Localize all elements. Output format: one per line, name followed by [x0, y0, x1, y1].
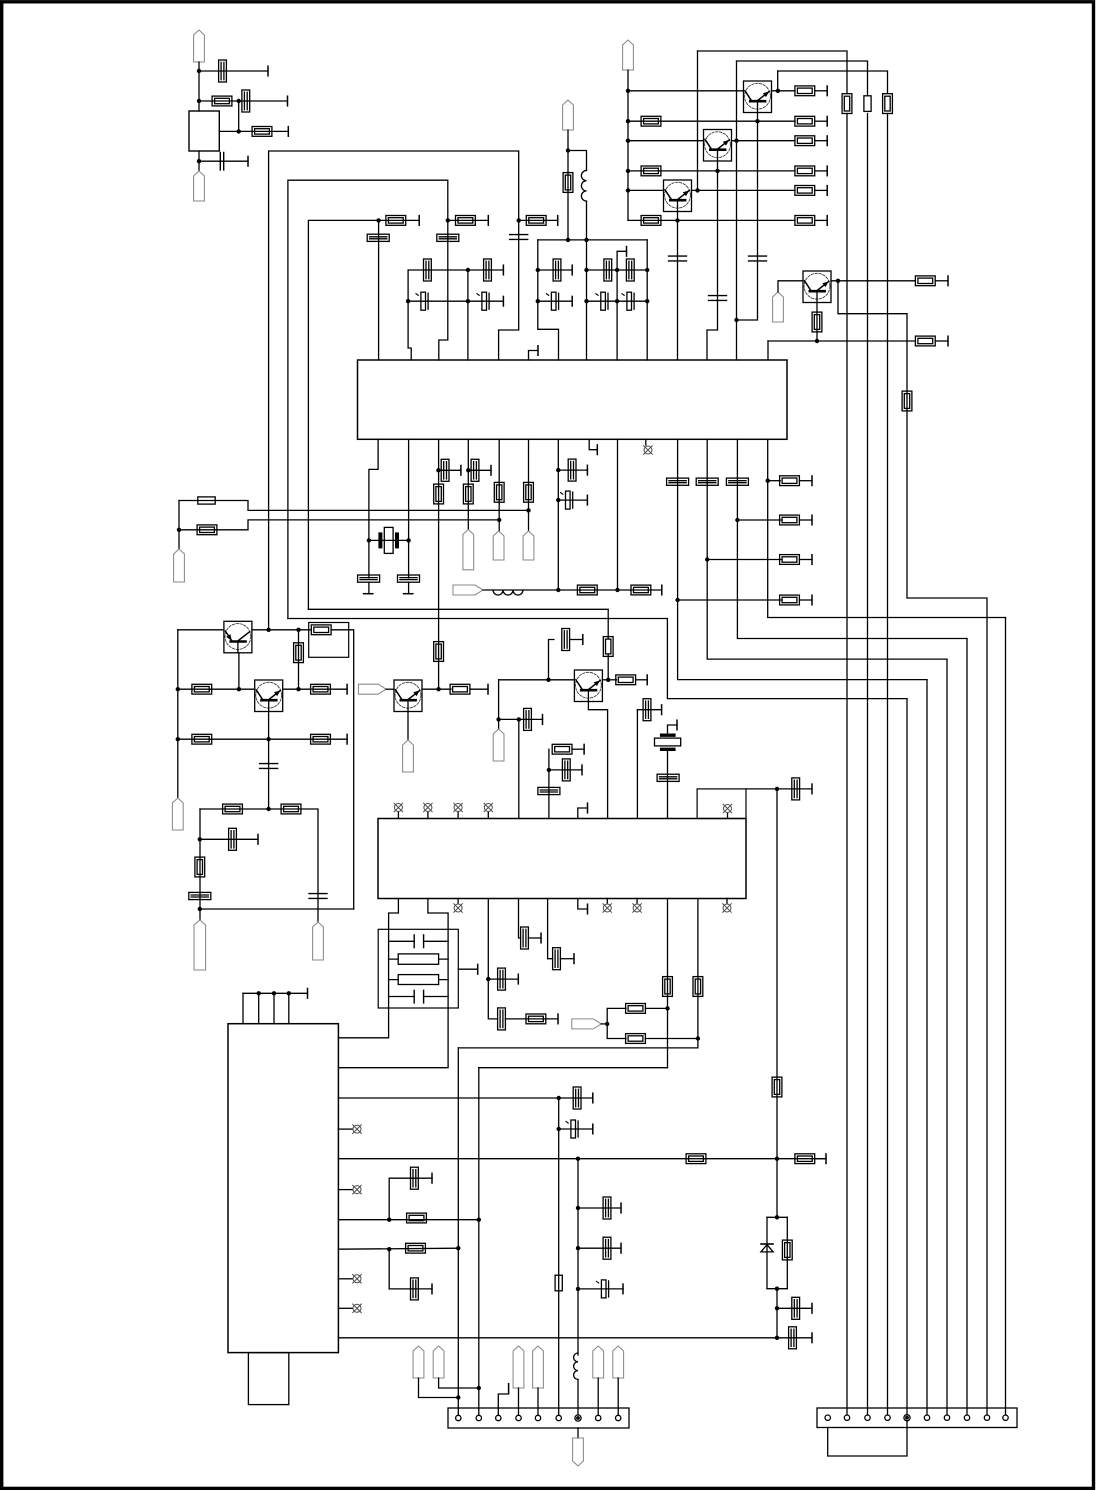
capacitor C37 — [643, 699, 651, 721]
wire cap C45 row — [389, 1177, 432, 1179]
wire R9 lead — [815, 189, 828, 191]
wire P21 down — [537, 1388, 539, 1415]
wire P23 down — [617, 1378, 619, 1415]
connector CN1 — [448, 1408, 629, 1428]
wire IC2 pin stub — [338, 1278, 352, 1280]
wire col 408 to IC1 — [408, 270, 411, 360]
wire row 520 — [737, 519, 781, 521]
node J5 — [296, 687, 300, 691]
terminal of C47 — [811, 1333, 813, 1343]
resistor R56 — [555, 1275, 562, 1291]
wire P22 down — [597, 1378, 599, 1415]
node D7 — [536, 299, 540, 303]
wire block bottom — [198, 151, 200, 171]
terminal hook B — [626, 247, 628, 257]
wire row 739 — [178, 738, 347, 740]
connector pin P1 — [194, 30, 205, 62]
node Q1n — [456, 1395, 460, 1399]
wire stub IC3 top pin — [427, 812, 429, 819]
terminal of R45 — [583, 744, 585, 754]
terminal of R36 — [346, 684, 348, 694]
connector CN1 pin 9 — [616, 1415, 621, 1420]
wire col 458 down — [457, 1048, 459, 1415]
node A3 — [237, 99, 241, 103]
node L6 — [547, 768, 551, 772]
wire IC2 top pin — [258, 993, 260, 1023]
capacitor C26 (trimmer) — [667, 478, 689, 485]
wire clusterB top — [538, 239, 647, 241]
resistor R38 — [311, 734, 331, 744]
node G4 — [615, 588, 619, 592]
node D10 — [645, 299, 649, 303]
module M1 (shielded) — [309, 623, 349, 658]
node Q6n — [576, 1287, 580, 1291]
node D5 — [584, 268, 588, 272]
capacitor C21 (trimmer) — [398, 575, 420, 582]
wire P17 to N2 — [601, 1023, 607, 1025]
terminal of C34 — [542, 715, 544, 725]
node L5 — [517, 717, 521, 721]
connector pin P19 — [433, 1346, 444, 1378]
resistor R44 — [616, 675, 636, 685]
connector CN1 pin 2 — [476, 1415, 481, 1420]
wire left rail upper — [178, 501, 180, 550]
wire stub IC3 bottom pin — [726, 899, 728, 904]
no-connect IC2 pin — [353, 1125, 362, 1134]
node G2 — [556, 498, 560, 502]
terminal of C25 — [586, 495, 588, 505]
resistor R41 — [195, 857, 205, 877]
wire diode bottom — [767, 1288, 787, 1290]
terminal IC2 top bar — [307, 989, 309, 999]
resistor R33 — [311, 625, 331, 635]
terminal of R17 — [947, 336, 949, 346]
no-connect IC3 bottom pin — [723, 904, 732, 913]
node L3 — [606, 678, 610, 682]
capacitor C9 — [510, 235, 528, 240]
wire hook IC3 top — [578, 808, 588, 819]
capacitor C15 — [604, 259, 612, 281]
no-connect IC3 top pin — [484, 803, 493, 812]
wire stub IC3 top pin — [397, 812, 399, 819]
wire row 719 — [499, 718, 543, 720]
node CA3 — [466, 299, 470, 303]
terminal of C21 — [404, 593, 413, 595]
wire Q7 collector — [602, 679, 616, 681]
connector CN2 pin 7 — [944, 1415, 949, 1420]
resistor R42 — [603, 637, 613, 657]
no-connect IC3 top pin — [424, 803, 433, 812]
resistor R36 — [311, 684, 331, 694]
wire P5 column — [567, 130, 569, 240]
wire col 698 down — [458, 899, 698, 1048]
capacitor C46 — [411, 1278, 419, 1300]
node B140.7 — [626, 139, 630, 143]
wire C55 lead — [528, 937, 541, 939]
terminal of R3 — [826, 86, 828, 96]
wire G1 cap — [558, 469, 587, 471]
wire O8 down — [388, 1249, 390, 1289]
wire CN1 gnd down — [577, 1428, 579, 1438]
wire Q7 base left down — [498, 680, 500, 720]
resistor R59 — [494, 482, 504, 502]
node O4 — [576, 1157, 580, 1161]
wire H4 lead — [768, 480, 781, 482]
wire Q7 emitter to IC3 — [588, 702, 607, 819]
connector pin P16 — [493, 729, 504, 761]
node F3 — [526, 508, 530, 512]
wire top feed to bus3 — [778, 71, 888, 94]
capacitor C16 — [626, 259, 634, 281]
node D11 — [615, 268, 619, 272]
node A1 — [197, 69, 201, 73]
node Q4C — [836, 279, 840, 283]
wire C43 lead — [560, 958, 574, 960]
connector CN1 pin 4 — [516, 1415, 521, 1420]
wire L6 cap — [549, 769, 582, 771]
wire L1 down — [586, 201, 588, 240]
resistor R15 — [915, 276, 935, 286]
resistor R51 — [795, 1154, 815, 1164]
module M2 — [697, 789, 746, 819]
resistor R58 — [902, 391, 912, 411]
wire M1 out down — [331, 630, 354, 909]
wire stub IC3 bottom pin — [457, 899, 459, 904]
connector CN2 pin 9 — [984, 1415, 989, 1420]
resistor R27 — [577, 585, 597, 595]
wire Q2C vertical to IC1 — [736, 61, 738, 360]
resistor R13 — [864, 96, 871, 112]
node D2 — [566, 238, 570, 242]
wire Q3n cap — [559, 1128, 593, 1130]
resistor R35 — [192, 684, 212, 694]
transistor Q3 — [664, 180, 692, 212]
connector CN1 pin 8 — [596, 1415, 601, 1420]
resistor R12 — [842, 94, 852, 114]
capacitor C5 — [709, 296, 727, 301]
wire row 600 — [678, 599, 781, 601]
terminal of C14 — [571, 265, 573, 275]
wire col 777 down lower — [776, 1289, 778, 1338]
no-connect IC2 pin — [353, 1275, 362, 1284]
wire R30 lead — [799, 559, 812, 561]
wire long row 609 — [308, 609, 608, 638]
node Q4n — [576, 1206, 580, 1210]
wire R6 lead — [815, 140, 828, 142]
IC U2 — [228, 1024, 338, 1353]
terminal of C49 — [592, 1124, 594, 1134]
capacitor C17 — [547, 292, 559, 310]
wire R44 lead — [636, 679, 648, 681]
wire P4 to Q4 base — [778, 281, 803, 292]
no-connect IC3 bottom pin — [633, 904, 642, 913]
connector pin P24 — [573, 1438, 584, 1466]
wire IC3 through M3 right — [338, 899, 448, 1068]
node G3 — [556, 588, 560, 592]
wire col 468 to IC1 — [467, 270, 469, 360]
node O9 — [456, 1246, 460, 1250]
wire long row 618 — [288, 619, 907, 699]
capacitor C13 — [477, 292, 489, 310]
wire P18 to CN1 — [419, 1378, 459, 1398]
wire col 547 down — [548, 899, 553, 959]
wire R42 down — [607, 655, 609, 680]
wire IC2 top pin — [242, 993, 244, 1023]
wire IC2 top pin — [273, 993, 275, 1023]
terminal of C30 — [257, 835, 259, 845]
wire Q4C to bus V4 — [838, 281, 907, 314]
resistor R52 — [407, 1213, 427, 1223]
wire hook IC3 bottom — [578, 899, 588, 910]
capacitor C47 — [789, 1327, 797, 1349]
wire R8 lead — [815, 170, 828, 172]
wire row220 seg2 — [448, 219, 489, 221]
wire IC1 pin to crystal right — [408, 439, 410, 578]
terminal of R44 — [646, 675, 648, 685]
terminal of R28 — [661, 585, 663, 595]
terminal of C24 — [586, 465, 588, 475]
resistor R18 — [386, 216, 406, 226]
wire to pin P13 — [317, 909, 319, 922]
wire Q6 collector row — [283, 688, 347, 690]
no-connect IC3 top pin — [454, 803, 463, 812]
connector pin P7 — [174, 549, 185, 582]
connector pin P22 — [593, 1346, 604, 1378]
resistor R62 (in M3) — [389, 975, 449, 985]
wire IC2 top bar — [243, 992, 308, 994]
node Q1E — [755, 119, 759, 123]
resistor R21 — [563, 173, 573, 193]
wire row220 seg1 — [379, 219, 420, 221]
resistor R54 — [772, 1077, 782, 1097]
resistor R32 — [780, 476, 800, 486]
node N2 — [605, 1022, 609, 1026]
connector CN2 pin 8 — [964, 1415, 969, 1420]
wire IC3 through M3 left — [338, 899, 398, 1038]
terminal of R31 — [811, 515, 813, 525]
terminal of R19 — [487, 216, 489, 226]
connector pin P5 — [563, 100, 574, 130]
wire IC2 pin row 1098 — [338, 1097, 558, 1099]
wire clusterB left rail — [538, 240, 559, 360]
node H1 — [675, 598, 679, 602]
transistor Q2 — [704, 130, 732, 162]
resistor R60 — [524, 482, 534, 502]
IC U2 tab — [248, 1353, 288, 1405]
wire C37 row — [637, 709, 661, 711]
node O8 — [387, 1247, 391, 1251]
wire row220 seg3 — [519, 219, 558, 221]
node D3 — [584, 238, 588, 242]
wire col 578 down — [577, 1159, 579, 1355]
resistor R46 — [526, 1014, 546, 1024]
wire diode left — [766, 1217, 768, 1288]
capacitor C49 — [566, 1120, 578, 1138]
wire Q6 base row — [178, 688, 255, 690]
connector CN1 pin 1 — [456, 1415, 461, 1420]
resistor R28 — [631, 585, 651, 595]
terminal hook CN1 — [508, 1384, 510, 1394]
connector CN1 pin 6 — [556, 1415, 561, 1420]
wire R11 lead — [815, 219, 828, 221]
node Q2E — [715, 169, 719, 173]
resistor R5 — [795, 116, 815, 126]
connector pin P4 — [773, 292, 784, 322]
wire row1 to Q1 base — [628, 90, 744, 92]
capacitor C54 (in M3) — [389, 990, 449, 1003]
connector CN1 pin 5 — [535, 1415, 540, 1420]
wire node A1 right — [199, 70, 268, 72]
node D6 — [645, 268, 649, 272]
wire Q3C vertical — [697, 51, 699, 190]
terminal of R18 — [418, 216, 420, 226]
terminal of C41 — [517, 974, 519, 984]
node J3 — [176, 687, 180, 691]
node CA2 — [406, 299, 410, 303]
node Q3n — [557, 1127, 561, 1131]
capacitor C23 — [471, 459, 479, 481]
resistor R61 (in M3) — [389, 954, 449, 964]
wire Q4n cap — [578, 1207, 621, 1209]
terminal of C33 — [582, 635, 584, 645]
capacitor C10 — [424, 259, 432, 281]
IC U3 — [378, 819, 746, 899]
wire col 768 down — [768, 439, 1006, 617]
node O6 — [387, 1218, 391, 1222]
diode D1 (zener) — [761, 1244, 773, 1252]
terminal of C48 — [811, 1304, 813, 1314]
transistor Q8 — [394, 680, 422, 712]
node D4 — [536, 268, 540, 272]
node L1 — [436, 687, 440, 691]
wire loop C — [308, 220, 378, 609]
node IC2t2 — [272, 991, 276, 995]
no-connect M2 pin — [723, 804, 732, 813]
resistor R20 — [526, 216, 546, 226]
wire col 518 to IC1 — [499, 220, 519, 360]
wire R32 lead — [799, 480, 812, 482]
node XT1 — [367, 538, 371, 542]
wire row2 — [628, 120, 795, 122]
wire E2 cap — [468, 469, 491, 471]
wire Q6 emitter — [268, 712, 270, 740]
capacitor C6 — [669, 256, 687, 261]
wire col 587 to IC1 — [586, 240, 588, 360]
resistor R9 — [795, 186, 815, 196]
wire O3 cap — [559, 1097, 593, 1099]
connector pin P12 — [194, 920, 206, 970]
node H2 — [705, 557, 709, 561]
wire Q8 emitter — [407, 712, 409, 741]
wire Q7 base row — [499, 679, 575, 681]
capacitor C53 (in M3) — [389, 935, 449, 948]
terminal stack hook — [676, 720, 678, 730]
wire crystal row — [369, 539, 409, 541]
wire E1 cap — [438, 469, 461, 471]
capacitor C50 — [603, 1197, 611, 1219]
node F1 — [177, 528, 181, 532]
wire node A2 right — [199, 100, 288, 102]
capacitor C14 — [553, 259, 561, 281]
node Q1E2 — [734, 318, 738, 322]
capacitor C48 — [792, 1297, 800, 1319]
wire R45 lead — [572, 748, 584, 750]
wire row4 — [628, 170, 795, 172]
resistor R26 — [197, 525, 217, 535]
resistor R40 — [281, 804, 301, 814]
connector pin P10 — [453, 585, 483, 595]
resistor R16 — [812, 312, 822, 332]
wire Q8 collector row — [422, 688, 451, 690]
wire IC2 pin row 1249 — [338, 1248, 458, 1249]
wire cap C46 row — [389, 1288, 432, 1290]
connector pin P21 — [533, 1346, 544, 1388]
terminal of C52 — [622, 1284, 624, 1294]
wire R31 lead — [799, 519, 812, 521]
wire col 199 down — [199, 809, 201, 920]
inductor L3 — [574, 1353, 578, 1379]
node O10 — [775, 1336, 779, 1340]
wire to pin P9 — [528, 510, 530, 531]
terminal of C3 net — [247, 156, 249, 166]
wire stub pin 646 — [645, 439, 647, 445]
node L4 — [496, 717, 500, 721]
wire row 1019 — [505, 1018, 558, 1020]
wire row6 — [628, 219, 795, 221]
wire R3 lead — [815, 90, 828, 92]
wire Q4 collector row — [831, 280, 915, 282]
capacitor C41 — [498, 968, 506, 990]
connector CN1 pin 7 (gnd) — [575, 1415, 581, 1421]
wire hook B — [617, 251, 626, 270]
wire IC2 pin row 1159 — [338, 1158, 826, 1160]
connector pin P8 — [493, 531, 504, 560]
terminal of M3 — [477, 964, 479, 974]
node B90.8 — [626, 89, 630, 93]
node D8 — [584, 299, 588, 303]
wire loop A — [269, 151, 519, 630]
wire top feed to bus1 — [698, 51, 848, 94]
node K1 — [266, 807, 270, 811]
terminal hook IC1 bottom — [596, 445, 598, 455]
wire P19 to CN1 — [439, 1378, 479, 1388]
wire Q3 emitter path — [677, 212, 679, 360]
resistor R50 — [693, 977, 703, 997]
wire Q5 base row — [178, 629, 224, 631]
wire IC2 pin stub — [338, 1307, 352, 1309]
wire row 560 — [707, 559, 781, 561]
resistor R17 — [915, 336, 935, 346]
wire IC1 pin 499 down — [498, 439, 500, 520]
wire bus V6 — [926, 680, 928, 1415]
wire bus V7 — [946, 659, 948, 1415]
capacitor C22 — [441, 459, 449, 481]
terminal of C44 — [592, 1093, 594, 1103]
node Q1C — [776, 89, 780, 93]
wire left rail lower — [177, 630, 179, 798]
terminal of C50 — [620, 1203, 622, 1213]
node D1 — [566, 148, 570, 152]
wire Q1 collector — [772, 90, 796, 92]
wire R15 lead — [935, 280, 948, 282]
terminal of C43 — [573, 954, 575, 964]
wire stub M2 pin — [727, 813, 729, 819]
connector CN2 pin 10 — [1003, 1415, 1008, 1420]
wire G2 cap — [558, 499, 587, 501]
wire clusterA row1 — [408, 269, 503, 271]
terminal of R20 — [557, 216, 559, 226]
wire Q2 emitter path — [707, 161, 718, 360]
